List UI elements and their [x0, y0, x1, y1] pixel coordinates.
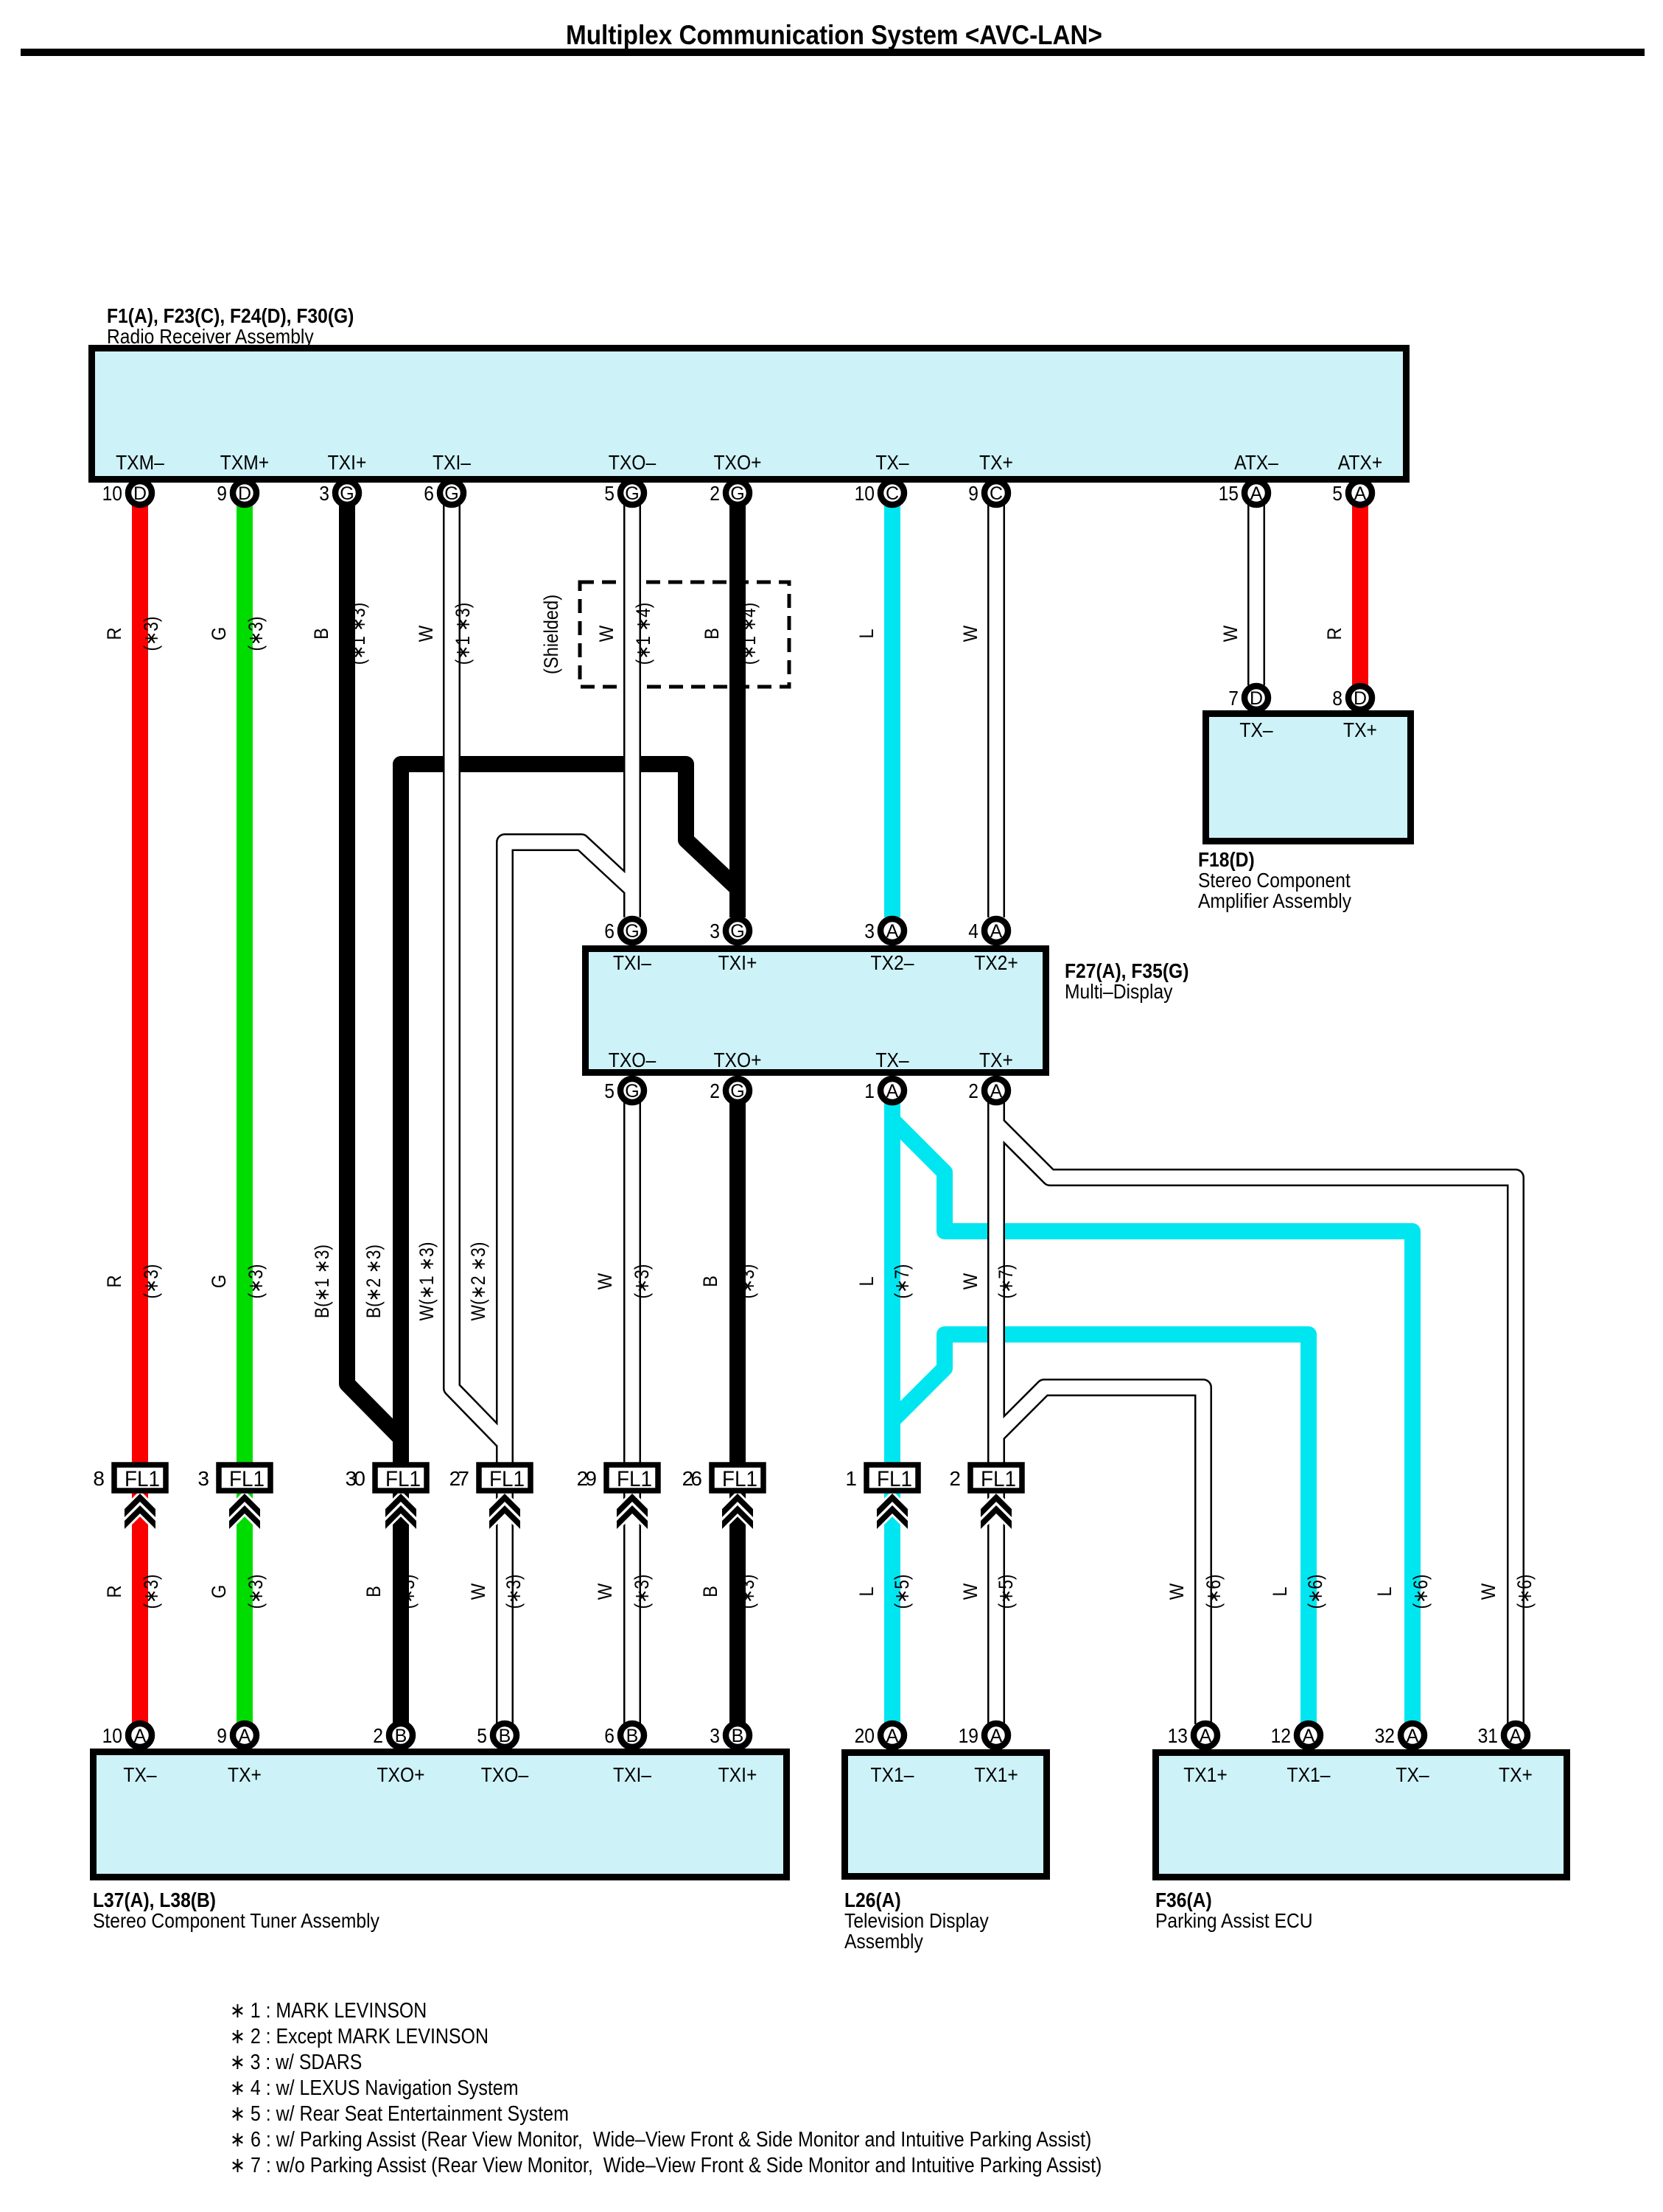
svg-text:(∗3): (∗3): [631, 1575, 653, 1609]
svg-text:TX2–: TX2–: [871, 951, 914, 974]
wire TXO+ black B(*1 *4) from radio pin 2G straight to multi-display TXI+ pin 3G: [729, 501, 746, 917]
radio receiver pin 5 connector A: [1348, 481, 1372, 505]
radio receiver pin 6 connector G: [440, 481, 463, 505]
svg-text:Stereo Component Tuner Assembl: Stereo Component Tuner Assembly: [93, 1909, 379, 1932]
svg-text:TX–: TX–: [123, 1763, 157, 1786]
svg-text:5: 5: [604, 482, 615, 505]
title rule: [21, 49, 1645, 56]
wire black B(*2 *3) branch: FL1 30 column up, elbow right, down to multi-display TXI+ pin 3G: [401, 764, 737, 1468]
wire TXI- white W(*1 *3) from radio pin 6G diagonal into FL1 27 column (core): [452, 501, 505, 1468]
wire TXI+ black B(*1 *3) from radio pin 3G diagonal into FL1 30 column: [347, 501, 401, 1468]
wire black B(*3) below FL1 30 to tuner TXO+ pin 2B: [393, 1468, 409, 1724]
svg-text:F18(D): F18(D): [1198, 848, 1255, 871]
wire white W(*7) main: multi-display TX+ pin 2A through FL1 2 to TV display pin 19A (core): [990, 1102, 1004, 1724]
svg-text:A: A: [239, 1726, 251, 1746]
svg-text:5: 5: [1332, 482, 1342, 505]
svg-text:B: B: [701, 628, 723, 640]
svg-text:TX+: TX+: [1499, 1763, 1533, 1786]
wire white W(*6) branch: fork from TX+ wire, elbow right, down to parking assist pin 31A (casing): [996, 1124, 1516, 1724]
svg-text:G: G: [340, 483, 354, 504]
amplifier pin 7 connector D: [1244, 686, 1268, 710]
svg-text:30: 30: [346, 1467, 365, 1490]
svg-text:G: G: [730, 1081, 744, 1102]
svg-text:B: B: [395, 1726, 407, 1746]
svg-text:FL1: FL1: [981, 1467, 1016, 1491]
tuner pin 9 connector A: [233, 1723, 256, 1747]
svg-text:(∗6): (∗6): [1410, 1575, 1432, 1609]
svg-text:FL1: FL1: [125, 1467, 160, 1491]
wire white W(*6) branch: fork from TX+ wire, elbow right, down to parking assist pin 13A (core): [996, 1387, 1203, 1724]
svg-text:FL1: FL1: [877, 1467, 912, 1491]
svg-text:2: 2: [373, 1724, 383, 1747]
svg-text:20: 20: [855, 1724, 875, 1747]
svg-text:B(∗1 ∗3): B(∗1 ∗3): [311, 1245, 333, 1318]
svg-text:∗ 6 : w/ Parking Assist (Rear: ∗ 6 : w/ Parking Assist (Rear View Monit…: [230, 2128, 1091, 2152]
svg-text:(∗3): (∗3): [140, 1575, 162, 1609]
wire white W(*6) branch: fork from TX+ wire, elbow right, down to parking assist pin 13A (casing): [996, 1387, 1203, 1724]
svg-text:A: A: [1200, 1726, 1212, 1746]
svg-text:L26(A): L26(A): [844, 1889, 901, 1911]
svg-text:TXO–: TXO–: [609, 451, 657, 474]
svg-text:A: A: [990, 921, 1003, 942]
svg-text:29: 29: [577, 1467, 597, 1490]
fusible link block FL1 26: [712, 1465, 763, 1491]
svg-text:(∗3): (∗3): [631, 1264, 653, 1299]
svg-text:ATX–: ATX–: [1234, 451, 1278, 474]
wire white W(*2 *3) branch: FL1 27 column up, elbow right, down to multi-display TXI- pin 6G (core): [505, 842, 632, 1468]
svg-text:A: A: [886, 1081, 899, 1102]
svg-text:TX1–: TX1–: [871, 1763, 914, 1786]
svg-text:ATX+: ATX+: [1338, 451, 1383, 474]
wire TXI- white W(*1 *3) from radio pin 6G diagonal into FL1 27 column (casing): [452, 501, 505, 1468]
svg-text:W: W: [1219, 625, 1242, 642]
svg-text:2: 2: [710, 482, 720, 505]
svg-text:A: A: [1303, 1726, 1315, 1746]
svg-text:Multiplex Communication System: Multiplex Communication System <AVC-LAN>: [566, 20, 1102, 50]
wire TXM+ green G(*3) from radio pin 9D through FL1 3 to tuner pin 9A: [237, 501, 253, 1724]
television display pin 20 connector A: [880, 1723, 904, 1747]
wire cyan L(*6) branch: fork from TX- wire, elbow right, down to parking assist pin 32A: [892, 1120, 1412, 1724]
svg-text:W: W: [959, 625, 981, 642]
wire TX- cyan L from radio pin 10C to multi-display TX2- pin 3A: [884, 501, 900, 917]
svg-text:TXI–: TXI–: [613, 951, 651, 974]
svg-text:G: G: [625, 921, 639, 942]
box F1(A) F23(C) F24(D) F30(G) Radio Receiver Assembly: [92, 349, 1407, 480]
svg-text:3: 3: [197, 1467, 209, 1490]
svg-text:(∗6): (∗6): [1304, 1575, 1326, 1609]
svg-text:13: 13: [1168, 1724, 1188, 1747]
shield box (Shielded) around TXO- and TXO+ wires: [580, 582, 789, 687]
svg-text:W: W: [594, 1583, 616, 1600]
wire white W(*3) below FL1 27 to tuner TXO- pin 5B (casing): [496, 1468, 514, 1724]
svg-text:B: B: [310, 628, 332, 640]
multi-display top pin 3 connector G: [726, 919, 749, 942]
fusible link block FL1 27: [479, 1465, 531, 1491]
svg-text:10: 10: [102, 482, 122, 505]
svg-text:B: B: [699, 1586, 721, 1597]
svg-text:1: 1: [845, 1467, 857, 1490]
shield chevron symbol below FL1 26: [722, 1494, 753, 1517]
svg-text:W: W: [415, 625, 437, 642]
shield chevron symbol below FL1 1: [877, 1494, 908, 1517]
shield chevron symbol below FL1 3: [229, 1494, 260, 1517]
radio receiver pin 5 connector G: [620, 481, 644, 505]
svg-text:C: C: [990, 483, 1003, 504]
svg-text:TX1–: TX1–: [1287, 1763, 1331, 1786]
television display pin 19 connector A: [984, 1723, 1008, 1747]
svg-text:4: 4: [968, 920, 978, 942]
svg-text:7: 7: [1228, 687, 1239, 710]
svg-text:D: D: [133, 483, 147, 504]
fusible link block FL1 29: [606, 1465, 658, 1491]
tuner terminal names: [123, 1763, 757, 1786]
fusible link block FL1 1: [866, 1465, 918, 1491]
wire TXO- white W(*1 *4) from radio pin 5G straight to multi-display TXI- pin 6G (casing): [623, 501, 641, 917]
svg-text:G: G: [625, 483, 639, 504]
svg-text:L: L: [855, 1276, 878, 1286]
svg-text:TX2+: TX2+: [974, 951, 1018, 974]
svg-text:A: A: [990, 1081, 1003, 1102]
svg-text:8: 8: [1332, 687, 1342, 710]
wire white W(*3) from multi-display TXO- pin 5G through FL1 29 to tuner TXI- pin 6B (core): [626, 1102, 640, 1724]
svg-text:A: A: [990, 1726, 1003, 1746]
svg-text:TXI+: TXI+: [718, 951, 757, 974]
svg-text:D: D: [238, 483, 251, 504]
tuner pin 2 connector B: [389, 1723, 413, 1747]
multi-display bottom pin 1 connector A: [880, 1079, 904, 1102]
svg-text:3: 3: [710, 1724, 720, 1747]
tuner pin 3 connector B: [726, 1723, 749, 1747]
svg-text:1: 1: [864, 1079, 875, 1102]
svg-text:TX–: TX–: [875, 1049, 909, 1071]
parking assist ECU pin 13 connector A: [1194, 1723, 1217, 1747]
svg-text:A: A: [1250, 483, 1263, 504]
svg-text:2: 2: [949, 1467, 961, 1490]
svg-text:W(∗2 ∗3): W(∗2 ∗3): [467, 1242, 489, 1321]
svg-text:(∗5): (∗5): [891, 1575, 913, 1609]
svg-text:Multi–Display: Multi–Display: [1065, 980, 1173, 1003]
svg-text:(∗3): (∗3): [245, 1575, 267, 1609]
svg-text:G: G: [730, 483, 744, 504]
wire white W(*2 *3) branch: FL1 27 column up, elbow right, down to multi-display TXI- pin 6G (casing): [505, 842, 632, 1468]
svg-text:TXO+: TXO+: [714, 1049, 762, 1071]
svg-text:TX1+: TX1+: [974, 1763, 1018, 1786]
svg-text:A: A: [134, 1726, 147, 1746]
svg-text:FL1: FL1: [489, 1467, 525, 1491]
multi-display terminal names top row: [613, 951, 1018, 974]
multi-display bottom pin 5 connector G: [620, 1079, 644, 1102]
svg-text:FL1: FL1: [385, 1467, 421, 1491]
radio receiver pin 9 connector D: [233, 481, 256, 505]
wire TX+ white W from radio pin 9C to multi-display TX2+ pin 4A (casing): [987, 501, 1005, 917]
wire colour labels upper level: [103, 603, 1345, 665]
svg-text:R: R: [103, 1585, 125, 1597]
wire TXM- red R(*3) from radio pin 10D through FL1 8 to tuner pin 10A: [132, 501, 148, 1724]
svg-text:B: B: [363, 1586, 385, 1597]
fusible link block FL1 30: [375, 1465, 427, 1491]
svg-text:3: 3: [319, 482, 329, 505]
radio receiver pin 10 connector D: [128, 481, 152, 505]
svg-text:10: 10: [102, 1724, 122, 1747]
box F18(D) Stereo Component Amplifier Assembly: [1206, 714, 1411, 841]
svg-text:TX+: TX+: [979, 1049, 1013, 1071]
svg-text:W: W: [467, 1583, 489, 1600]
svg-text:D: D: [1250, 688, 1263, 709]
radio receiver pin 9 connector C: [984, 481, 1008, 505]
svg-text:(∗1 ∗3): (∗1 ∗3): [347, 603, 369, 665]
shield chevron symbol below FL1 2: [981, 1494, 1012, 1517]
svg-text:∗ 1 : MARK LEVINSON: ∗ 1 : MARK LEVINSON: [230, 1999, 427, 2023]
svg-text:Assembly: Assembly: [844, 1930, 923, 1953]
wire ATX+ red R from radio pin 5A to amplifier pin 8D: [1352, 501, 1368, 685]
svg-text:(∗1 ∗4): (∗1 ∗4): [738, 603, 760, 665]
svg-text:R: R: [103, 627, 125, 640]
box F27(A) F35(G) Multi-Display: [586, 949, 1046, 1073]
svg-text:(∗7): (∗7): [891, 1264, 913, 1299]
label F27(A), F35(G) Multi-Display: [1065, 959, 1188, 1003]
svg-text:L: L: [1373, 1586, 1396, 1596]
shield chevron symbol below FL1 29: [617, 1494, 648, 1517]
svg-text:W: W: [959, 1583, 981, 1600]
svg-text:TXO–: TXO–: [609, 1049, 657, 1071]
svg-text:A: A: [1407, 1726, 1419, 1746]
box F36(A) Parking Assist ECU: [1156, 1753, 1567, 1877]
shield chevron symbol below FL1 8: [125, 1494, 155, 1517]
svg-text:31: 31: [1478, 1724, 1498, 1747]
svg-text:8: 8: [93, 1467, 105, 1490]
multi-display top pin 6 connector G: [620, 919, 644, 942]
box L26(A) Television Display Assembly: [845, 1753, 1047, 1877]
svg-text:F36(A): F36(A): [1155, 1889, 1212, 1911]
svg-text:FL1: FL1: [722, 1467, 757, 1491]
tuner pin 6 connector B: [620, 1723, 644, 1747]
svg-text:Parking Assist ECU: Parking Assist ECU: [1155, 1909, 1313, 1932]
svg-text:Television Display: Television Display: [844, 1909, 989, 1932]
svg-text:TX+: TX+: [979, 451, 1013, 474]
radio receiver pin 3 connector G: [335, 481, 359, 505]
svg-text:9: 9: [217, 1724, 227, 1747]
wire colour labels lower level: [103, 1575, 1536, 1609]
multi-display terminal names bottom row: [609, 1049, 1013, 1071]
svg-text:G: G: [730, 921, 744, 942]
svg-text:TX1+: TX1+: [1183, 1763, 1228, 1786]
svg-text:R: R: [103, 1275, 125, 1287]
svg-text:L: L: [1269, 1586, 1291, 1596]
fusible link block FL1 3: [219, 1465, 270, 1491]
radio receiver pin 10 connector C: [880, 481, 904, 505]
fusible link block FL1 8: [114, 1465, 166, 1491]
svg-text:TXO+: TXO+: [714, 451, 762, 474]
svg-text:A: A: [886, 1726, 899, 1746]
tuner pin 5 connector B: [493, 1723, 517, 1747]
svg-text:F27(A), F35(G): F27(A), F35(G): [1065, 959, 1188, 982]
svg-text:A: A: [1354, 483, 1367, 504]
parking assist ECU terminal names: [1183, 1763, 1533, 1786]
svg-text:∗ 7 : w/o Parking Assist (Rear: ∗ 7 : w/o Parking Assist (Rear View Moni…: [230, 2154, 1102, 2177]
svg-text:G: G: [208, 1275, 230, 1289]
tuner pin 10 connector A: [128, 1723, 152, 1747]
svg-text:D: D: [1354, 688, 1367, 709]
svg-text:6: 6: [604, 920, 615, 942]
svg-text:A: A: [1510, 1726, 1522, 1746]
multi-display top pin 3 connector A: [880, 919, 904, 942]
svg-text:FL1: FL1: [617, 1467, 652, 1491]
wire colour labels middle level: [103, 1242, 1017, 1321]
box L37(A) L38(B) Stereo Component Tuner Assembly: [94, 1752, 787, 1877]
svg-text:(∗3): (∗3): [245, 1264, 267, 1299]
svg-text:W(∗1 ∗3): W(∗1 ∗3): [416, 1242, 438, 1321]
svg-text:W: W: [594, 1273, 616, 1289]
shield chevron symbol below FL1 30: [385, 1494, 416, 1517]
svg-text:(∗3): (∗3): [140, 1264, 162, 1299]
svg-text:TXM–: TXM–: [116, 451, 164, 474]
svg-text:TX–: TX–: [875, 451, 909, 474]
svg-text:6: 6: [424, 482, 434, 505]
svg-text:W: W: [1166, 1583, 1188, 1600]
svg-text:(∗1 ∗4): (∗1 ∗4): [632, 603, 654, 665]
svg-text:TXI+: TXI+: [328, 451, 367, 474]
svg-text:W: W: [595, 625, 617, 642]
svg-text:15: 15: [1219, 482, 1239, 505]
svg-text:(∗1 ∗3): (∗1 ∗3): [452, 603, 474, 665]
svg-text:32: 32: [1375, 1724, 1395, 1747]
svg-text:Radio Receiver Assembly: Radio Receiver Assembly: [107, 325, 314, 348]
svg-text:F1(A), F23(C), F24(D), F30(G): F1(A), F23(C), F24(D), F30(G): [107, 304, 354, 327]
wire cyan L(*7) main: multi-display TX- pin 1A through FL1 1 to TV display pin 20A: [884, 1102, 900, 1724]
label F1(A), F23(C), F24(D), F30(G) Radio Receiver Assembly: [107, 304, 354, 348]
svg-text:19: 19: [959, 1724, 978, 1747]
wire TX+ white W from radio pin 9C to multi-display TX2+ pin 4A (core): [990, 501, 1004, 917]
svg-text:B: B: [626, 1726, 639, 1746]
svg-text:A: A: [886, 921, 899, 942]
svg-text:R: R: [1323, 627, 1345, 640]
svg-text:C: C: [886, 483, 899, 504]
svg-text:(Shielded): (Shielded): [540, 595, 562, 674]
wire white W(*3) from multi-display TXO- pin 5G through FL1 29 to tuner TXI- pin 6B (casing): [623, 1102, 641, 1724]
shield chevron symbol below FL1 27: [489, 1494, 520, 1517]
svg-text:L: L: [855, 1586, 878, 1596]
svg-text:(∗5): (∗5): [995, 1575, 1017, 1609]
amplifier pin 8 connector D: [1348, 686, 1372, 710]
radio receiver terminal names: [116, 451, 1382, 474]
svg-text:26: 26: [682, 1467, 702, 1490]
svg-text:L37(A), L38(B): L37(A), L38(B): [93, 1889, 216, 1911]
radio receiver pin 15 connector A: [1244, 481, 1268, 505]
svg-text:TXO–: TXO–: [481, 1763, 529, 1786]
svg-text:27: 27: [449, 1467, 469, 1490]
svg-text:(∗7): (∗7): [995, 1264, 1017, 1299]
svg-text:TXO+: TXO+: [377, 1763, 425, 1786]
svg-text:10: 10: [855, 482, 875, 505]
fusible link block FL1 2: [970, 1465, 1022, 1491]
svg-text:9: 9: [968, 482, 978, 505]
svg-text:2: 2: [710, 1079, 720, 1102]
multi-display bottom pin 2 connector A: [984, 1079, 1008, 1102]
svg-text:TX–: TX–: [1396, 1763, 1429, 1786]
amplifier terminal names: [1239, 718, 1377, 741]
wire white W(*6) branch: fork from TX+ wire, elbow right, down to parking assist pin 31A (core): [996, 1124, 1516, 1724]
svg-text:TX–: TX–: [1239, 718, 1273, 741]
svg-text:5: 5: [604, 1079, 615, 1102]
television display terminal names: [871, 1763, 1018, 1786]
svg-text:G: G: [208, 627, 230, 641]
multi-display bottom pin 2 connector G: [726, 1079, 749, 1102]
parking assist ECU pin 12 connector A: [1297, 1723, 1320, 1747]
svg-text:6: 6: [604, 1724, 615, 1747]
svg-text:12: 12: [1271, 1724, 1291, 1747]
svg-text:TXI–: TXI–: [433, 451, 471, 474]
svg-text:L: L: [855, 629, 878, 638]
svg-text:(∗3): (∗3): [245, 617, 267, 651]
svg-text:∗ 2 : Except MARK LEVINSON: ∗ 2 : Except MARK LEVINSON: [230, 2025, 489, 2048]
svg-text:∗ 3 : w/ SDARS: ∗ 3 : w/ SDARS: [230, 2051, 362, 2074]
svg-text:(∗3): (∗3): [396, 1575, 419, 1609]
svg-text:Stereo Component: Stereo Component: [1198, 869, 1351, 892]
wire white W(*7) main: multi-display TX+ pin 2A through FL1 2 to TV display pin 19A (casing): [987, 1102, 1005, 1724]
parking assist ECU pin 31 connector A: [1504, 1723, 1527, 1747]
label F36(A) Parking Assist ECU: [1155, 1889, 1313, 1932]
svg-text:3: 3: [864, 920, 875, 942]
svg-text:B: B: [699, 1275, 721, 1287]
svg-text:TXI+: TXI+: [718, 1763, 757, 1786]
svg-text:3: 3: [710, 920, 720, 942]
svg-text:∗ 4 : w/ LEXUS Navigation Syst: ∗ 4 : w/ LEXUS Navigation System: [230, 2076, 519, 2100]
svg-text:B: B: [499, 1726, 511, 1746]
svg-text:FL1: FL1: [229, 1467, 265, 1491]
svg-text:5: 5: [477, 1724, 487, 1747]
svg-text:TXI–: TXI–: [613, 1763, 651, 1786]
label L37(A), L38(B) Stereo Component Tuner Assembly: [93, 1889, 379, 1932]
svg-text:9: 9: [217, 482, 227, 505]
wire cyan L(*6) branch: fork from TX- wire, elbow right, down to parking assist pin 12A: [892, 1334, 1309, 1724]
svg-text:(∗3): (∗3): [140, 617, 162, 651]
svg-text:TXM+: TXM+: [220, 451, 269, 474]
svg-text:(∗3): (∗3): [503, 1575, 525, 1609]
svg-text:(∗6): (∗6): [1513, 1575, 1536, 1609]
wire TXO- white W(*1 *4) from radio pin 5G straight to multi-display TXI- pin 6G (core): [626, 501, 640, 917]
svg-text:(∗3): (∗3): [736, 1575, 758, 1609]
svg-text:(∗6): (∗6): [1202, 1575, 1225, 1609]
svg-text:TX+: TX+: [228, 1763, 262, 1786]
svg-text:2: 2: [968, 1079, 978, 1102]
svg-text:G: G: [444, 483, 458, 504]
wire ATX- white W from radio pin 15A to amplifier pin 7D (core): [1250, 501, 1264, 685]
svg-text:G: G: [625, 1081, 639, 1102]
multi-display top pin 4 connector A: [984, 919, 1008, 942]
label L26(A) Television Display Assembly: [844, 1889, 989, 1953]
svg-text:TX+: TX+: [1343, 718, 1377, 741]
svg-text:W: W: [1477, 1583, 1499, 1600]
svg-text:B(∗2 ∗3): B(∗2 ∗3): [363, 1245, 385, 1318]
parking assist ECU pin 32 connector A: [1401, 1723, 1424, 1747]
radio receiver pin 2 connector G: [726, 481, 749, 505]
svg-text:Amplifier Assembly: Amplifier Assembly: [1198, 889, 1351, 912]
svg-text:∗ 5 : w/ Rear Seat Entertainme: ∗ 5 : w/ Rear Seat Entertainment System: [230, 2102, 569, 2126]
footnotes list: [230, 1999, 1102, 2177]
svg-text:(∗3): (∗3): [736, 1264, 758, 1299]
wire ATX- white W from radio pin 15A to amplifier pin 7D (casing): [1247, 501, 1265, 685]
wire black B(*3) from multi-display TXO+ pin 2G through FL1 26 to tuner TXI+ pin 3B: [729, 1102, 746, 1724]
wire white W(*3) below FL1 27 to tuner TXO- pin 5B (core): [498, 1468, 512, 1724]
svg-text:B: B: [732, 1726, 744, 1746]
svg-text:G: G: [208, 1585, 230, 1599]
svg-text:W: W: [959, 1273, 981, 1289]
label F18(D) Stereo Component Amplifier Assembly: [1198, 848, 1351, 912]
